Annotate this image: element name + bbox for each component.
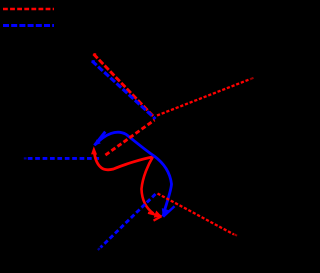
node: start tick of ray A: [93, 53, 96, 55]
wire: red dashed ray F to lower-right: [158, 194, 235, 235]
arrowhead: blue filled head at bottom: [162, 208, 169, 217]
upper loop: red solid curve swooping right: [94, 153, 152, 170]
arrowhead: blue arrow head at P1: [94, 139, 101, 145]
node: faint end tick of ray C: [251, 78, 254, 79]
lower loop: red solid curve down from node: [142, 157, 154, 214]
node: faint end tick of ray F: [235, 234, 238, 235]
node: start tick of ray B: [92, 60, 95, 62]
wire: incident red dashed ray A: [94, 54, 155, 118]
lower loop: blue solid curve down from node: [154, 156, 172, 217]
legend red dashed line: [3, 8, 54, 11]
wire: blue dashed ray E to lower-left: [101, 194, 156, 248]
legend blue dashed line: [3, 24, 54, 27]
wire: reflected red dashed ray C: [157, 79, 251, 116]
arrowhead: red up arrow at P1: [91, 146, 97, 154]
wire: red dashed ray G to lower-left: [105, 120, 155, 156]
arrowhead: red filled head at bottom: [154, 211, 162, 218]
upper loop: blue solid arc over the top: [95, 132, 154, 156]
node: faint end tick of ray E: [98, 248, 100, 250]
wire: blue dashed horizontal ray D: [28, 157, 102, 160]
node: faint left tick of ray D: [24, 157, 27, 159]
wire: incident blue dashed ray B: [92, 61, 156, 119]
